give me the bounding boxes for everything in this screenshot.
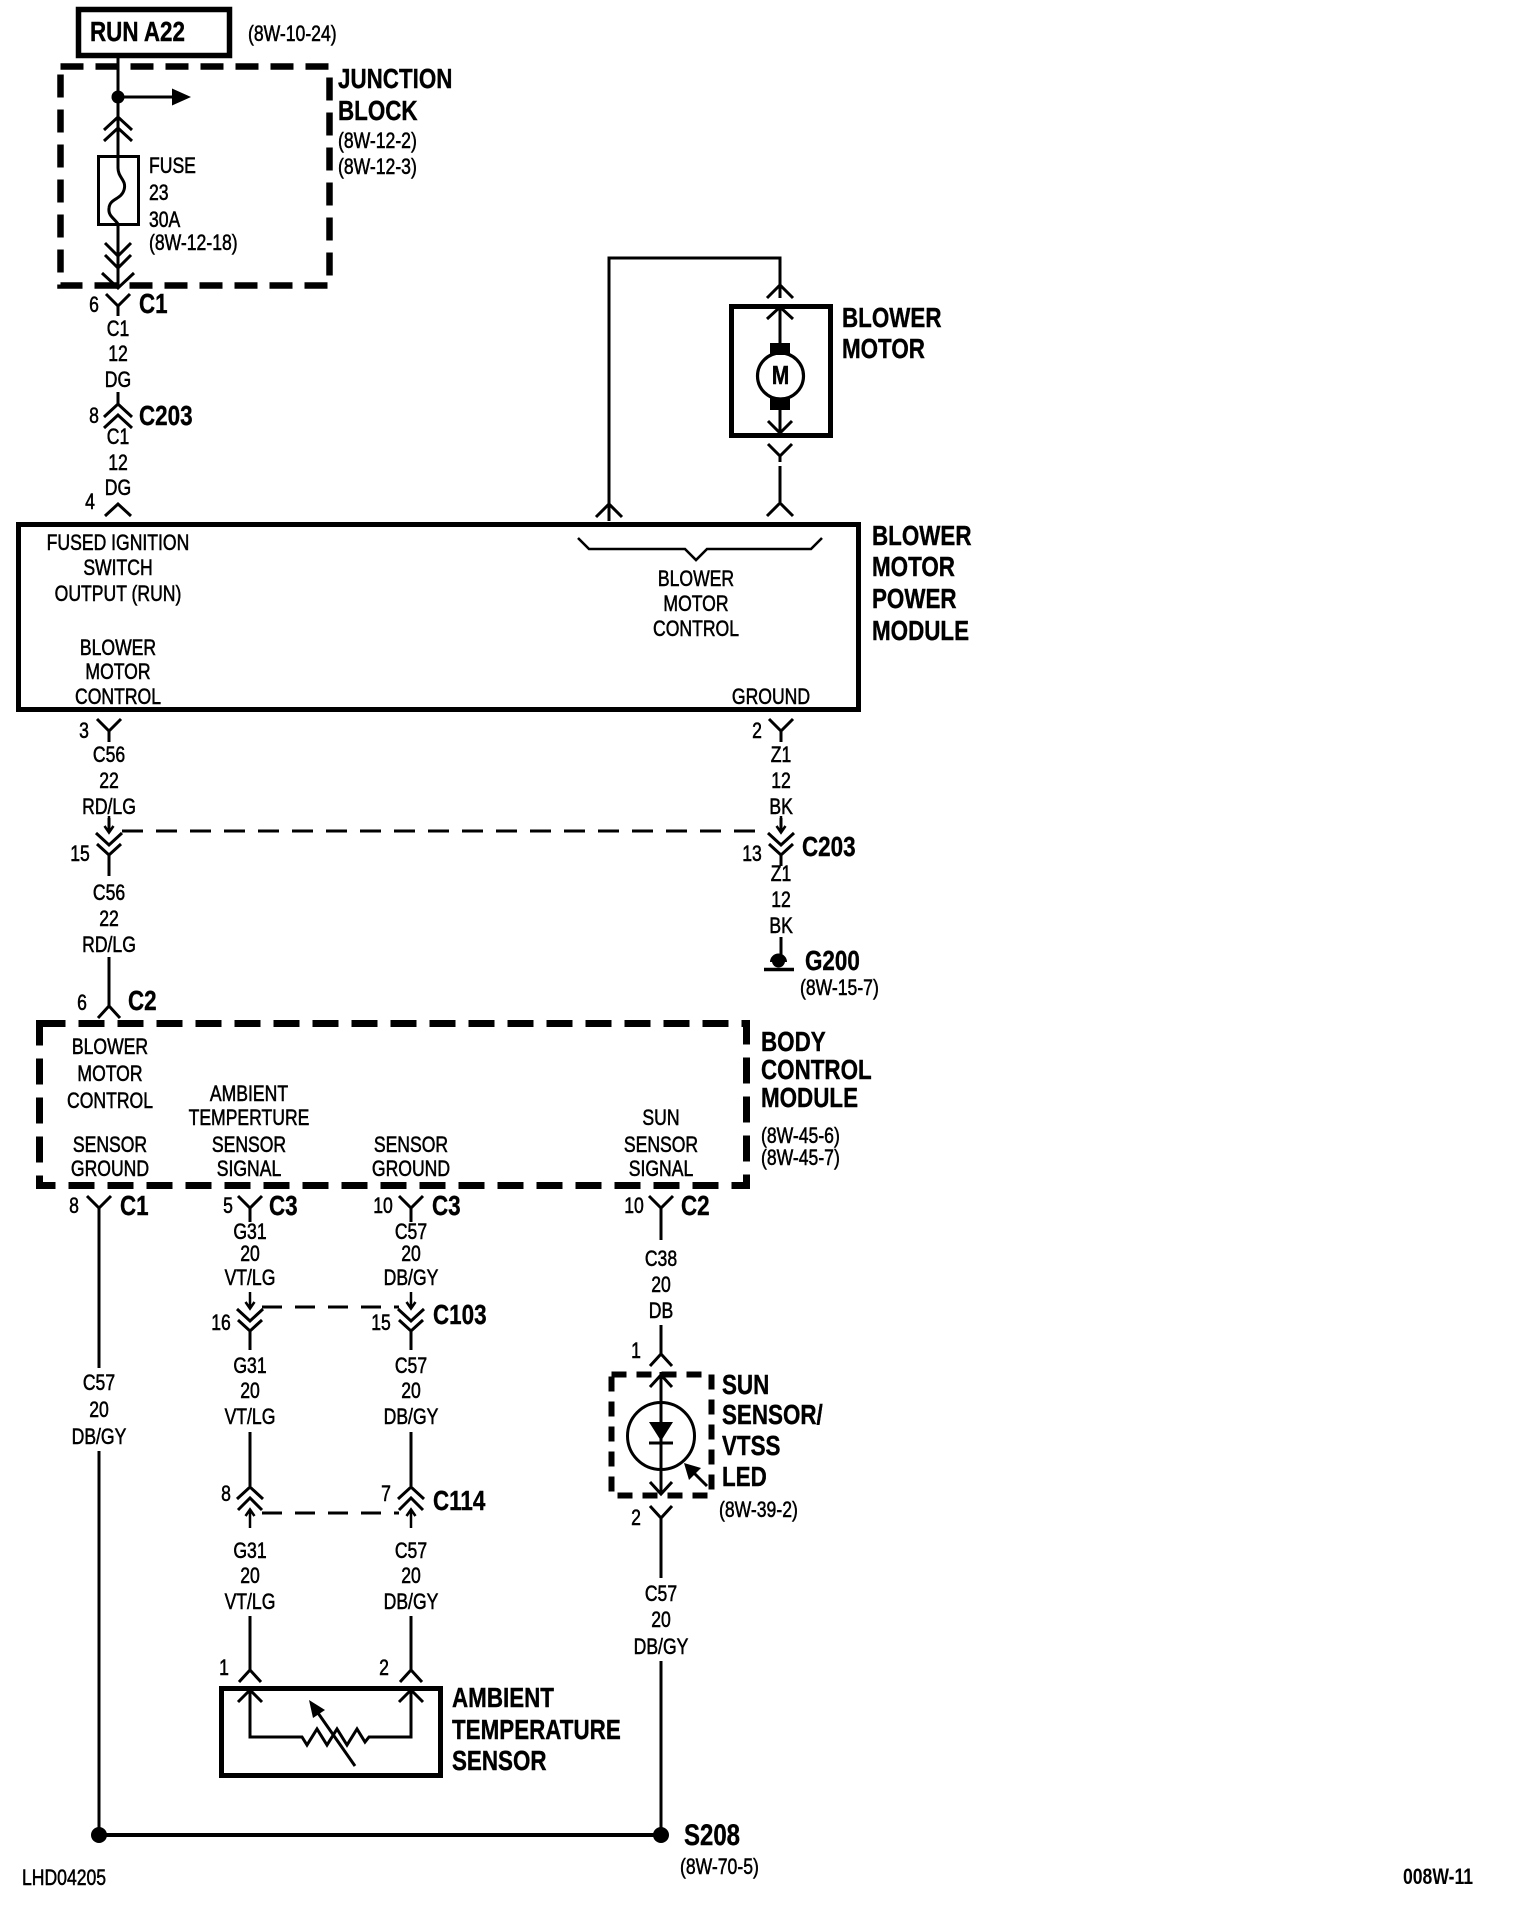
svg-text:C57: C57 xyxy=(395,1354,427,1378)
svg-text:VT/LG: VT/LG xyxy=(225,1266,276,1290)
svg-text:(8W-45-6): (8W-45-6) xyxy=(761,1124,840,1148)
svg-text:6: 6 xyxy=(89,293,99,317)
connector C203 pin 15 xyxy=(70,816,122,876)
svg-text:20: 20 xyxy=(401,1242,421,1266)
label SUN SENSOR/ VTSS LED xyxy=(719,1370,823,1523)
svg-text:VT/LG: VT/LG xyxy=(225,1590,276,1614)
svg-text:MOTOR: MOTOR xyxy=(663,592,728,616)
label BLOWER MOTOR POWER MODULE xyxy=(872,521,971,647)
ground G200 xyxy=(764,946,879,1001)
svg-text:C2: C2 xyxy=(128,986,157,1017)
svg-text:C57: C57 xyxy=(83,1371,115,1395)
connector C103 dashed mating line xyxy=(262,1306,399,1309)
svg-text:C57: C57 xyxy=(645,1582,677,1606)
svg-text:(8W-12-18): (8W-12-18) xyxy=(149,231,238,255)
node splice S208 dot xyxy=(653,1827,669,1843)
svg-text:12: 12 xyxy=(108,342,128,366)
svg-text:30A: 30A xyxy=(149,208,181,232)
svg-text:GROUND: GROUND xyxy=(71,1157,149,1181)
node RUN A22 feed box xyxy=(79,10,230,56)
wire from RUN A22 into junction block xyxy=(117,55,120,97)
wire G31 20 VT/LG (below C103) xyxy=(225,1354,276,1486)
svg-text:C3: C3 xyxy=(269,1191,298,1222)
connector C1 pin 8 (BCM) xyxy=(69,1191,149,1222)
junction block box xyxy=(61,67,330,286)
sun sensor LED symbol xyxy=(628,1372,708,1494)
svg-text:13: 13 xyxy=(742,842,762,866)
svg-text:BLOWER: BLOWER xyxy=(658,567,734,591)
svg-text:M: M xyxy=(772,361,789,390)
connector C114 pin 7 xyxy=(381,1482,424,1528)
svg-text:Z1: Z1 xyxy=(771,862,792,886)
svg-text:DB/GY: DB/GY xyxy=(384,1405,439,1429)
svg-text:FUSED IGNITION: FUSED IGNITION xyxy=(47,531,190,555)
svg-text:12: 12 xyxy=(108,451,128,475)
wire C57 20 DB/GY (sun sensor) xyxy=(634,1529,689,1835)
svg-text:RUN A22: RUN A22 xyxy=(90,17,185,48)
svg-text:(8W-12-3): (8W-12-3) xyxy=(338,155,417,179)
svg-text:G31: G31 xyxy=(233,1539,266,1563)
wire dot to fuse xyxy=(117,97,120,155)
svg-text:7: 7 xyxy=(381,1482,391,1506)
pin chevron at blower motor top xyxy=(767,285,793,298)
svg-text:CONTROL: CONTROL xyxy=(67,1089,153,1113)
connector C114 pin 8 xyxy=(221,1482,263,1528)
connector C103 pin 16 xyxy=(211,1292,263,1350)
svg-text:(8W-12-2): (8W-12-2) xyxy=(338,129,417,153)
svg-text:5: 5 xyxy=(223,1194,233,1218)
connector chevrons fuse output xyxy=(102,243,134,288)
svg-text:8: 8 xyxy=(221,1482,231,1506)
svg-text:C57: C57 xyxy=(395,1220,427,1244)
splice S208 wire xyxy=(99,1833,661,1837)
svg-text:DG: DG xyxy=(105,476,131,500)
svg-text:BLOWER: BLOWER xyxy=(872,521,971,552)
svg-text:C203: C203 xyxy=(802,832,856,863)
svg-text:SIGNAL: SIGNAL xyxy=(217,1157,282,1181)
svg-text:G31: G31 xyxy=(233,1354,266,1378)
svg-text:C3: C3 xyxy=(432,1191,461,1222)
svg-text:16: 16 xyxy=(211,1311,231,1335)
svg-text:TEMPERATURE: TEMPERATURE xyxy=(452,1715,621,1746)
svg-text:G200: G200 xyxy=(805,946,860,977)
connector C1 pin 6 (junction block) xyxy=(89,289,168,320)
label BODY CONTROL MODULE xyxy=(761,1027,872,1171)
svg-text:6: 6 xyxy=(77,991,87,1015)
svg-text:CONTROL: CONTROL xyxy=(761,1055,872,1086)
svg-text:C57: C57 xyxy=(395,1539,427,1563)
svg-text:20: 20 xyxy=(240,1564,260,1588)
svg-text:DB/GY: DB/GY xyxy=(72,1425,127,1449)
svg-text:(8W-70-5): (8W-70-5) xyxy=(680,1855,759,1879)
label fused ignition switch output (run) xyxy=(47,531,190,606)
svg-text:15: 15 xyxy=(371,1311,391,1335)
svg-text:3: 3 xyxy=(79,719,89,743)
wire C56 22 RD/LG xyxy=(82,743,136,830)
connector C3 pin 10 (BCM) xyxy=(373,1191,460,1222)
wire Z1 12 BK (lower) xyxy=(769,862,793,955)
svg-text:C56: C56 xyxy=(93,881,125,905)
connector C103 pin 15 xyxy=(371,1292,424,1350)
svg-text:C1: C1 xyxy=(107,425,129,449)
svg-text:MOTOR: MOTOR xyxy=(77,1062,142,1086)
svg-text:DB/GY: DB/GY xyxy=(634,1635,689,1659)
pin 1 ambient temperature sensor xyxy=(219,1656,261,1682)
svg-text:Z1: Z1 xyxy=(771,743,792,767)
connector C203 pin 13 xyxy=(742,816,794,867)
svg-text:C1: C1 xyxy=(139,289,168,320)
label sun sensor signal xyxy=(624,1106,698,1181)
svg-text:22: 22 xyxy=(99,769,119,793)
wire C1 12 DG (lower) xyxy=(105,425,131,500)
svg-text:BK: BK xyxy=(769,914,793,938)
label BLOWER MOTOR xyxy=(842,303,941,365)
wire C57 20 DB/GY (to sensor) xyxy=(384,1539,439,1660)
label ambient temperture sensor signal xyxy=(189,1082,310,1181)
wire C57 20 DB/GY (below C103) xyxy=(384,1354,439,1486)
blower motor M1 box xyxy=(732,307,831,436)
svg-text:BLOCK: BLOCK xyxy=(338,96,418,127)
svg-text:BODY: BODY xyxy=(761,1027,826,1058)
svg-text:SENSOR: SENSOR xyxy=(624,1133,698,1157)
svg-text:22: 22 xyxy=(99,907,119,931)
connector below blower motor xyxy=(767,444,793,516)
svg-text:C1: C1 xyxy=(120,1191,149,1222)
label S208 xyxy=(680,1817,759,1879)
svg-text:S208: S208 xyxy=(684,1817,740,1851)
label sensor ground (left) xyxy=(71,1133,149,1181)
pin chevron above module (left feed) xyxy=(596,504,622,517)
label AMBIENT TEMPERATURE SENSOR xyxy=(452,1683,621,1777)
label blower motor control (BCM) xyxy=(67,1035,153,1113)
svg-text:12: 12 xyxy=(771,769,791,793)
wire Z1 12 BK xyxy=(769,743,793,830)
svg-text:10: 10 xyxy=(624,1194,644,1218)
wire C56 22 RD/LG (lower) xyxy=(82,881,136,996)
svg-text:15: 15 xyxy=(70,842,90,866)
svg-text:MODULE: MODULE xyxy=(761,1083,858,1114)
svg-text:OUTPUT (RUN): OUTPUT (RUN) xyxy=(55,582,182,606)
svg-text:G31: G31 xyxy=(233,1220,266,1244)
svg-text:POWER: POWER xyxy=(872,584,957,615)
connector C3 pin 5 (BCM) xyxy=(223,1191,298,1222)
connector C203 pin 8 xyxy=(89,401,192,432)
svg-text:20: 20 xyxy=(401,1564,421,1588)
svg-text:BLOWER: BLOWER xyxy=(72,1035,148,1059)
svg-text:(8W-15-7): (8W-15-7) xyxy=(800,976,879,1000)
svg-text:20: 20 xyxy=(651,1608,671,1632)
svg-text:2: 2 xyxy=(379,1656,389,1680)
svg-text:20: 20 xyxy=(240,1242,260,1266)
svg-text:8: 8 xyxy=(89,404,99,428)
svg-text:DG: DG xyxy=(105,368,131,392)
svg-text:C203: C203 xyxy=(139,401,193,432)
thermistor element xyxy=(238,1690,423,1766)
svg-text:20: 20 xyxy=(401,1379,421,1403)
connector C2 pin 10 (BCM) xyxy=(624,1191,709,1222)
pin 2 ambient temperature sensor xyxy=(379,1656,422,1682)
svg-text:10: 10 xyxy=(373,1194,393,1218)
connector chevrons into fuse cavity xyxy=(104,117,132,141)
brace blower motor control xyxy=(578,538,822,560)
svg-text:VT/LG: VT/LG xyxy=(225,1405,276,1429)
svg-text:SENSOR: SENSOR xyxy=(73,1133,147,1157)
fuse F23 30A xyxy=(99,156,139,225)
svg-text:1: 1 xyxy=(219,1656,229,1680)
node splice dot left xyxy=(91,1827,107,1843)
wire C38 20 DB xyxy=(645,1219,677,1324)
pin 3 of power module xyxy=(79,719,121,744)
label FUSE 23 30A (8W-12-18) xyxy=(149,154,238,255)
svg-text:SUN: SUN xyxy=(722,1370,769,1401)
svg-text:1: 1 xyxy=(631,1339,641,1363)
svg-text:CONTROL: CONTROL xyxy=(653,617,739,641)
label blower motor control (center) xyxy=(653,567,739,641)
wire branch arrow right xyxy=(118,89,191,106)
wire G31 20 VT/LG (pin 5) xyxy=(225,1219,276,1291)
svg-text:BLOWER: BLOWER xyxy=(842,303,941,334)
svg-text:C1: C1 xyxy=(107,317,129,341)
svg-text:12: 12 xyxy=(771,888,791,912)
svg-text:8: 8 xyxy=(69,1194,79,1218)
pin 4 of power module xyxy=(85,490,131,516)
svg-text:FUSE: FUSE xyxy=(149,154,196,178)
svg-text:2: 2 xyxy=(631,1506,641,1530)
wire C57 20 DB/GY (pin 10 C3) xyxy=(384,1219,439,1291)
label sensor ground (middle) xyxy=(372,1133,450,1181)
svg-text:20: 20 xyxy=(651,1273,671,1297)
svg-text:RD/LG: RD/LG xyxy=(82,933,136,957)
body control module box xyxy=(40,1024,747,1186)
ambient temperature sensor box xyxy=(222,1689,441,1776)
svg-text:AMBIENT: AMBIENT xyxy=(210,1082,288,1106)
wire G31 20 VT/LG (to sensor) xyxy=(225,1539,276,1660)
svg-text:(8W-10-24): (8W-10-24) xyxy=(248,22,337,46)
svg-text:C114: C114 xyxy=(433,1486,485,1517)
svg-text:23: 23 xyxy=(149,181,169,205)
svg-text:C103: C103 xyxy=(433,1300,487,1331)
svg-text:MOTOR: MOTOR xyxy=(85,660,150,684)
svg-text:008W-11: 008W-11 xyxy=(1403,1865,1473,1889)
svg-text:C2: C2 xyxy=(681,1191,710,1222)
svg-text:GROUND: GROUND xyxy=(372,1157,450,1181)
label JUNCTION BLOCK xyxy=(338,64,452,180)
connector C203 dashed mating line xyxy=(122,830,768,833)
wire sensor ground C57 20 DB/GY (left) xyxy=(72,1219,127,1835)
svg-text:SUN: SUN xyxy=(642,1106,679,1130)
svg-text:DB/GY: DB/GY xyxy=(384,1590,439,1614)
svg-text:DB/GY: DB/GY xyxy=(384,1266,439,1290)
svg-text:BLOWER: BLOWER xyxy=(80,636,156,660)
svg-text:C38: C38 xyxy=(645,1247,677,1271)
label blower motor control (left) xyxy=(75,636,161,709)
svg-text:LED: LED xyxy=(722,1462,767,1493)
connector C114 dashed mating line xyxy=(262,1512,399,1515)
svg-text:MOTOR: MOTOR xyxy=(842,334,925,365)
pin 2 of power module xyxy=(752,719,793,744)
svg-text:RD/LG: RD/LG xyxy=(82,795,136,819)
svg-text:BK: BK xyxy=(769,795,793,819)
svg-text:SWITCH: SWITCH xyxy=(83,556,152,580)
svg-text:20: 20 xyxy=(89,1398,109,1422)
node splice dot in junction block xyxy=(112,91,125,104)
blower motor internals xyxy=(758,307,804,433)
svg-text:JUNCTION: JUNCTION xyxy=(338,64,452,95)
wire module to blower motor (top loop) xyxy=(609,258,780,521)
svg-text:SENSOR: SENSOR xyxy=(374,1133,448,1157)
svg-text:MODULE: MODULE xyxy=(872,616,969,647)
svg-text:(8W-45-7): (8W-45-7) xyxy=(761,1146,840,1170)
svg-text:MOTOR: MOTOR xyxy=(872,552,955,583)
sun sensor / VTSS LED dashed box xyxy=(612,1375,712,1496)
connector C2 pin 6 (BCM input) xyxy=(77,986,157,1018)
svg-text:SENSOR: SENSOR xyxy=(452,1746,547,1777)
svg-text:SENSOR: SENSOR xyxy=(212,1133,286,1157)
svg-text:4: 4 xyxy=(85,490,95,514)
svg-text:VTSS: VTSS xyxy=(722,1431,780,1462)
svg-text:TEMPERTURE: TEMPERTURE xyxy=(189,1106,310,1130)
blower motor power module box xyxy=(19,525,859,710)
wire C1 12 DG xyxy=(105,317,131,404)
svg-text:SENSOR/: SENSOR/ xyxy=(722,1400,823,1431)
wire fuse output xyxy=(117,224,120,288)
svg-text:LHD04205: LHD04205 xyxy=(22,1866,106,1890)
pin 2 sun sensor xyxy=(631,1506,672,1531)
svg-text:DB: DB xyxy=(649,1299,673,1323)
svg-text:GROUND: GROUND xyxy=(732,685,810,709)
svg-text:CONTROL: CONTROL xyxy=(75,685,161,709)
svg-text:2: 2 xyxy=(752,719,762,743)
pin 1 sun sensor xyxy=(631,1325,672,1366)
svg-text:C56: C56 xyxy=(93,743,125,767)
svg-text:20: 20 xyxy=(240,1379,260,1403)
svg-text:SIGNAL: SIGNAL xyxy=(629,1157,694,1181)
svg-text:(8W-39-2): (8W-39-2) xyxy=(719,1498,798,1522)
svg-text:AMBIENT: AMBIENT xyxy=(452,1683,554,1714)
